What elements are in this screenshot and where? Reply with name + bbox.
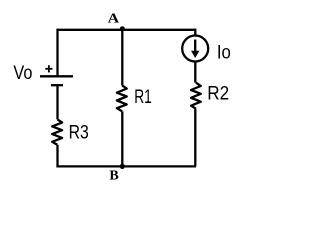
wire node A to R1 — [121, 30, 123, 86]
svg-text:B: B — [109, 169, 118, 184]
svg-text:A: A — [108, 11, 120, 26]
svg-text:Io: Io — [217, 41, 231, 63]
node A junction dot — [120, 26, 125, 31]
wire R3 to bottom wire — [56, 145, 58, 168]
current source arrow head — [191, 51, 199, 58]
svg-text:R2: R2 — [207, 82, 229, 104]
resistor R3 zigzag — [52, 119, 62, 144]
svg-text:Vo: Vo — [13, 62, 32, 84]
wire bottom horizontal B — [57, 165, 197, 167]
current source arrow shaft — [194, 40, 196, 52]
wire current source to R2 — [194, 62, 196, 83]
voltage source Vo battery long plate (+) — [40, 75, 73, 77]
resistor R1 zigzag — [117, 85, 127, 111]
wire top right corner down to current source — [194, 29, 196, 36]
wire R1 to node B — [121, 111, 123, 166]
voltage source Vo battery short plate (-) — [51, 84, 63, 86]
node B junction dot — [120, 164, 125, 169]
resistor R2 zigzag — [191, 83, 201, 109]
wire top horizontal A — [57, 29, 197, 31]
voltage source plus sign — [45, 65, 52, 72]
svg-text:R1: R1 — [134, 86, 152, 108]
wire battery to R3 — [56, 85, 58, 119]
svg-text:R3: R3 — [69, 122, 89, 144]
wire left vertical from top wire to battery — [56, 29, 58, 76]
current source Io circle — [182, 36, 208, 62]
wire R2 to bottom wire — [194, 109, 196, 167]
